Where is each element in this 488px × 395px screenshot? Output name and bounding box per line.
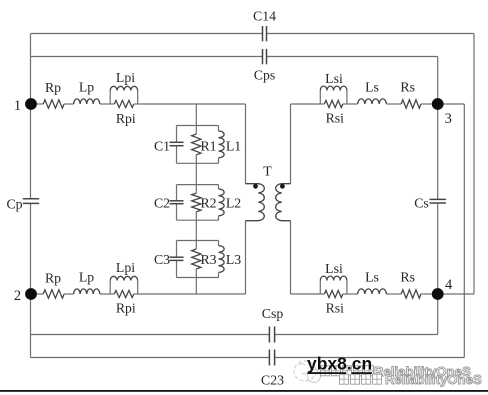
wire block2 left vertical upper [176, 185, 178, 201]
wire primary bottom vertical [245, 221, 247, 294]
wire node3-node4 rail upper [437, 104, 439, 199]
svg-text:Lsi: Lsi [325, 71, 343, 86]
wire node4 extension [438, 293, 474, 295]
resistor Rs (top branch) [401, 100, 421, 108]
wire block2 left vertical lower [176, 204, 178, 221]
capacitor C23 [269, 350, 274, 366]
svg-text:C2: C2 [154, 195, 170, 210]
wire Csp line right [275, 334, 438, 336]
svg-text:Rp: Rp [45, 271, 61, 286]
capacitor C3 [170, 257, 184, 260]
wire block1 bottom rail [177, 162, 219, 164]
inductor Lpi (bottom branch) [110, 276, 138, 294]
capacitor Cps [263, 49, 267, 64]
wire secondary top vertical [290, 104, 292, 184]
svg-text:Rpi: Rpi [116, 111, 136, 126]
capacitor Csp [269, 327, 274, 343]
svg-text:Lp: Lp [79, 270, 94, 285]
svg-text:2: 2 [14, 288, 21, 304]
wire Rp to Lp (top) [64, 103, 74, 105]
capacitor C14 [263, 26, 267, 41]
resistor R3 [192, 241, 201, 278]
wire transformer to Lsi (bottom) [291, 293, 321, 295]
wire block2 bottom rail [177, 219, 219, 221]
svg-text:C3: C3 [154, 252, 170, 267]
inductor Lsi (bottom branch) [320, 276, 347, 294]
svg-text:T: T [263, 163, 272, 178]
wire Rp to Lp (bottom) [64, 293, 74, 295]
svg-text:L3: L3 [226, 252, 241, 267]
svg-text:L2: L2 [226, 195, 241, 210]
inductor Lsi (top branch) [320, 86, 347, 104]
wire Ls to Rs (top) [386, 103, 401, 105]
wire node4 drop to Csp line [437, 294, 439, 335]
svg-text:Csp: Csp [262, 306, 284, 321]
svg-text:ReliabilityOneS: ReliabilityOneS [385, 372, 482, 387]
svg-text:Rsi: Rsi [326, 301, 345, 316]
svg-text:C1: C1 [154, 139, 170, 154]
resistor Rsi (top branch) [320, 100, 347, 107]
wire chain top [195, 104, 197, 126]
svg-text:Lsi: Lsi [325, 261, 343, 276]
capacitor C1 [170, 142, 184, 145]
wire Rs to node (bottom) [421, 293, 433, 295]
transformer primary polarity dot [253, 184, 258, 189]
wire Lp to Lpi (top) [100, 103, 110, 105]
inductor Lpi (top branch) [110, 86, 138, 104]
svg-text:R2: R2 [200, 195, 216, 210]
wire C23 line left [31, 357, 270, 359]
wire Csp line left [31, 334, 270, 336]
wire C23 line right [275, 357, 465, 359]
transformer T secondary winding [276, 184, 291, 221]
wire Lpi to transformer (bottom) [138, 293, 246, 295]
node 1 [25, 98, 37, 110]
svg-text:3: 3 [445, 111, 452, 127]
wire node3-node4 rail lower [437, 203, 439, 294]
resistor R1 [192, 126, 201, 164]
wire transformer to Lsi (top) [291, 103, 321, 105]
wire right outer rail (C14 to node4) [473, 34, 475, 295]
svg-text:Lp: Lp [79, 80, 94, 95]
svg-text:Ls: Ls [365, 270, 379, 285]
wire left rail lower (node2 net) [30, 203, 32, 357]
watermark logo circle [294, 361, 321, 383]
wire secondary bottom vertical [290, 221, 292, 294]
capacitor C2 [170, 201, 184, 204]
resistor Rp (top branch) [43, 100, 64, 108]
wire node to Rp (bottom) [36, 293, 43, 295]
capacitor Cs [430, 199, 446, 203]
wire chain bottom [195, 278, 197, 295]
svg-text:Rs: Rs [400, 80, 415, 95]
transformer T primary winding [246, 184, 265, 221]
bottom border line [0, 390, 488, 392]
watermark ghost text line 2 [340, 372, 482, 387]
wire block3 bottom rail [177, 277, 219, 279]
wire right middle rail (node3 to C23) [463, 104, 465, 358]
svg-text:4: 4 [445, 277, 453, 293]
resistor Rpi (top branch) [110, 100, 138, 107]
wire Cps line left [31, 56, 263, 58]
resistor R2 [192, 185, 201, 221]
wire primary top vertical [245, 104, 247, 184]
watermark ghost text line 1 [321, 364, 471, 379]
wire block3 top rail [177, 240, 219, 242]
wire chain block1-block2 [195, 163, 197, 184]
wire Lsi to Ls (bottom) [347, 293, 358, 295]
svg-text:C23: C23 [261, 373, 284, 388]
node 4 [432, 288, 444, 300]
svg-text:C14: C14 [253, 9, 276, 24]
wire node3 extension [438, 103, 465, 105]
capacitor Cp [23, 199, 39, 204]
svg-text:Cp: Cp [6, 196, 22, 211]
wire Ls to Rs (bottom) [386, 293, 401, 295]
node 3 [432, 98, 444, 110]
wire block1 left vertical lower [176, 146, 178, 164]
resistor Rpi (bottom branch) [110, 290, 138, 297]
svg-text:R1: R1 [200, 139, 216, 154]
inductor Ls (top branch) [358, 99, 387, 104]
wire Lpi to transformer (top) [138, 103, 246, 105]
inductor Ls (bottom branch) [358, 289, 387, 294]
resistor Rsi (bottom branch) [320, 290, 347, 297]
svg-text:ybx8.cn: ybx8.cn [307, 354, 372, 374]
wire Rs to node (top) [421, 103, 433, 105]
svg-text:Lpi: Lpi [116, 70, 135, 85]
wire block1 top rail [177, 125, 219, 127]
wire left rail upper (node1 net) [30, 34, 32, 199]
inductor L3 [219, 241, 225, 278]
svg-text:Cs: Cs [414, 196, 429, 211]
svg-text:Ls: Ls [365, 80, 379, 95]
svg-text:Cps: Cps [254, 68, 275, 83]
wire block3 left vertical lower [176, 260, 178, 277]
svg-text:Rp: Rp [45, 80, 61, 95]
node 2 [25, 288, 37, 300]
svg-text:Rs: Rs [400, 270, 415, 285]
svg-text:Rsi: Rsi [326, 111, 345, 126]
wire node to Rp (top) [36, 103, 43, 105]
resistor Rs (bottom branch) [401, 290, 421, 298]
wire top line C14 left [31, 33, 263, 35]
wire chain block2-block3 [195, 220, 197, 240]
wire Cps drop to node3 [437, 57, 439, 105]
inductor Lp (top branch) [74, 99, 100, 104]
svg-text:R3: R3 [200, 252, 216, 267]
wire block3 left vertical upper [176, 241, 178, 258]
inductor Lp (bottom branch) [74, 289, 100, 294]
svg-text:Rpi: Rpi [116, 301, 136, 316]
transformer secondary polarity dot [280, 184, 285, 189]
svg-text:L1: L1 [226, 139, 241, 154]
wire Lp to Lpi (bottom) [100, 293, 110, 295]
wire block2 top rail [177, 184, 219, 186]
wire block1 left vertical upper [176, 126, 178, 143]
wire Lsi to Ls (top) [347, 103, 358, 105]
wire top line C14 right [267, 33, 475, 35]
resistor Rp (bottom branch) [43, 290, 64, 298]
svg-text:Lpi: Lpi [116, 260, 135, 275]
watermark underline [308, 372, 373, 374]
svg-text:1: 1 [14, 98, 21, 114]
wire Cps line right [267, 56, 438, 58]
inductor L2 [219, 185, 225, 221]
inductor L1 [219, 126, 225, 164]
